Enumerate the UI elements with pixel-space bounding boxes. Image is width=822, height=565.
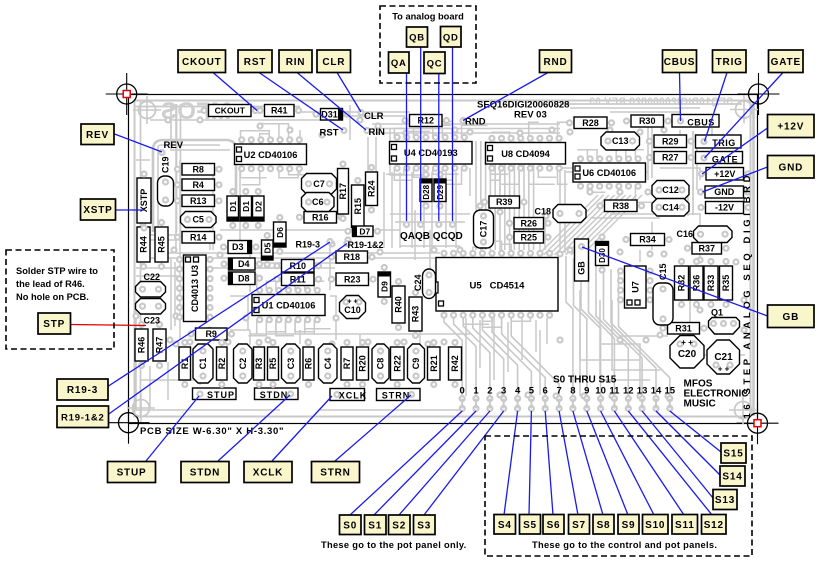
wire CLR callout: [337, 73, 361, 113]
wire: [571, 195, 631, 255]
IC U5 CD4514: [432, 251, 559, 318]
svg-text:R6: R6: [304, 358, 314, 370]
wire +12V callout: [702, 128, 768, 174]
IC U2 CD40106: [235, 137, 307, 171]
resistor R9: [189, 332, 194, 337]
wire: [544, 195, 604, 255]
wire: [136, 234, 180, 236]
svg-text:C13: C13: [612, 136, 629, 146]
label box S14: [720, 466, 745, 486]
resistor R28: [567, 120, 572, 125]
svg-text:R38: R38: [613, 201, 630, 211]
wire: [444, 316, 462, 399]
wire: [711, 128, 713, 135]
capacitor C9: [408, 344, 425, 383]
wire: [610, 214, 700, 260]
wire: [304, 320, 306, 334]
svg-text:R15: R15: [353, 198, 363, 215]
resistor R45: [159, 220, 164, 225]
svg-text:R4: R4: [192, 180, 204, 190]
svg-text:U2 CD40106: U2 CD40106: [244, 150, 298, 160]
svg-text:14: 14: [651, 386, 662, 397]
wire: [570, 107, 700, 109]
connector CBUS: [672, 115, 719, 128]
svg-text:C19: C19: [161, 156, 171, 173]
svg-text:+ +: + +: [718, 365, 730, 374]
svg-text:R42: R42: [450, 355, 460, 372]
wire: [372, 128, 560, 130]
svg-text:C21: C21: [714, 352, 733, 363]
svg-text:MUSIC: MUSIC: [684, 399, 716, 410]
resistor R35: [724, 259, 729, 264]
resistor R14: [175, 235, 180, 240]
svg-text:GND: GND: [778, 162, 803, 173]
wire: [230, 329, 250, 331]
wire: [375, 137, 377, 172]
svg-text:CLR: CLR: [322, 57, 345, 68]
wire: [577, 195, 637, 255]
svg-text:D9: D9: [379, 281, 389, 292]
diode D6: [277, 215, 282, 220]
svg-text:STRN: STRN: [320, 468, 350, 479]
wire stubs: [239, 121, 654, 335]
wire: [140, 379, 200, 381]
svg-text:CD4013 U3: CD4013 U3: [190, 265, 200, 312]
wire: [136, 159, 150, 161]
wire loop: [153, 140, 236, 232]
label box RST: [238, 50, 272, 73]
label box S11: [672, 515, 698, 535]
svg-text:RST: RST: [244, 57, 266, 68]
wire: [220, 229, 400, 231]
svg-text:R29: R29: [662, 136, 679, 146]
wire: [419, 330, 421, 344]
wire XCLK callout: [272, 396, 332, 461]
svg-text:R21: R21: [429, 355, 439, 372]
svg-text:D2: D2: [253, 201, 263, 212]
svg-text:No hole on PCB.: No hole on PCB.: [16, 292, 89, 302]
svg-text:C24: C24: [413, 274, 423, 291]
resistor R32: [679, 259, 684, 264]
wire: [518, 141, 520, 250]
label box S5: [520, 515, 541, 535]
svg-text:Solder STP wire to: Solder STP wire to: [16, 266, 98, 276]
connector XCLK: [330, 389, 367, 401]
svg-text:9: 9: [584, 386, 589, 397]
resistor R10: [275, 263, 280, 268]
wire: [149, 366, 151, 408]
wire S3 callout: [424, 411, 504, 515]
resistor R16: [297, 215, 302, 220]
svg-text:STUP: STUP: [207, 390, 235, 400]
svg-text:CKOUT: CKOUT: [182, 57, 222, 68]
svg-text:2: 2: [487, 386, 492, 397]
wire: [680, 196, 688, 216]
svg-text:Q1: Q1: [711, 308, 723, 318]
vias: [134, 118, 747, 399]
resistor R30: [624, 119, 629, 124]
svg-text:These go to the pot panel only: These go to the pot panel only.: [321, 540, 466, 550]
connector TRIG: [696, 135, 742, 148]
wire: [485, 141, 487, 250]
svg-text:U6 CD40106: U6 CD40106: [582, 168, 636, 178]
fiducial mark: [729, 396, 757, 424]
capacitor C22: [136, 282, 166, 298]
svg-text:R39: R39: [496, 197, 513, 207]
svg-text:C20: C20: [678, 349, 697, 360]
wire: [493, 318, 495, 380]
wire REV callout: [115, 134, 163, 152]
label box CBUS: [663, 50, 697, 73]
svg-text:R23: R23: [344, 274, 361, 284]
wire GATE callout: [705, 73, 784, 159]
svg-text:R34: R34: [639, 235, 656, 245]
svg-text:C18: C18: [535, 207, 552, 217]
svg-text:STDN: STDN: [260, 390, 289, 400]
svg-text:C8: C8: [376, 358, 386, 370]
svg-text:C2: C2: [238, 358, 248, 370]
svg-text:D1: D1: [228, 201, 238, 212]
wire S4 callout: [504, 411, 518, 515]
label box RIN: [279, 50, 312, 73]
wire: [507, 322, 509, 372]
svg-text:R30: R30: [639, 116, 656, 126]
dashed box Solder STP note: [6, 250, 114, 349]
svg-text:S7: S7: [572, 520, 586, 531]
svg-text:C3: C3: [286, 358, 296, 370]
svg-text:C10: C10: [344, 305, 361, 315]
wire: [175, 104, 177, 250]
capacitor C2: [234, 344, 253, 383]
dashed box control and pot panels: [485, 436, 752, 556]
svg-text:C17: C17: [479, 221, 489, 238]
wire CBUS callout: [680, 73, 681, 122]
wire: [359, 335, 361, 346]
svg-text:7: 7: [556, 386, 561, 397]
wire TRIG callout: [705, 73, 728, 142]
wire: [689, 300, 691, 340]
svg-text:15: 15: [665, 386, 676, 397]
wire: [136, 275, 180, 277]
wire: [424, 132, 426, 176]
wire: [566, 195, 626, 255]
svg-text:XSTP: XSTP: [139, 189, 149, 213]
wire: [499, 141, 501, 250]
svg-text:R31: R31: [675, 323, 692, 333]
wire S10 callout: [601, 411, 654, 515]
capacitor C17: [474, 210, 494, 248]
resistor R23: [329, 277, 334, 282]
wire: [383, 172, 385, 248]
capacitor C1: [193, 344, 213, 383]
svg-text:D5: D5: [262, 242, 272, 253]
svg-text:R35: R35: [721, 275, 731, 292]
svg-text:13: 13: [637, 386, 648, 397]
wire: [544, 210, 546, 250]
wire: [164, 240, 166, 258]
resistor R20: [360, 340, 365, 345]
svg-text:GATE: GATE: [771, 57, 801, 68]
wire: [150, 257, 470, 259]
fiducial mark: [127, 394, 155, 422]
diode D4: [222, 262, 227, 267]
svg-text:C5: C5: [192, 215, 204, 225]
wire STRN callout: [335, 395, 411, 461]
svg-text:S0 THRU S15: S0 THRU S15: [553, 375, 617, 386]
wire copper border ring: [135, 101, 751, 417]
svg-text:R28: R28: [582, 118, 599, 128]
wire: [692, 131, 694, 215]
svg-text:C9: C9: [411, 358, 421, 370]
capacitor C3: [282, 344, 301, 383]
wire: [170, 258, 172, 330]
svg-text:CLR: CLR: [364, 111, 384, 122]
diode D8: [222, 276, 227, 281]
resistor R21: [431, 340, 436, 345]
IC U3 CD4013: [177, 255, 213, 322]
wire: [559, 170, 561, 250]
svg-text:D8: D8: [238, 273, 250, 283]
svg-text:R19-3: R19-3: [67, 385, 98, 396]
svg-text:RST: RST: [320, 128, 339, 139]
connector GB: [575, 239, 589, 281]
mounting hole target: [737, 402, 779, 444]
svg-text:To analog board: To analog board: [392, 12, 464, 22]
svg-text:D1: D1: [241, 201, 251, 212]
svg-text:R27: R27: [662, 153, 679, 163]
resistor R26: [507, 221, 512, 226]
resistor R43: [413, 290, 418, 295]
wire: [581, 260, 601, 398]
svg-text:R3: R3: [254, 358, 264, 370]
resistor R1: [182, 340, 187, 345]
wire: [414, 210, 416, 260]
svg-text:D31: D31: [321, 110, 338, 120]
label box S13: [713, 490, 737, 510]
label box S9: [618, 515, 639, 535]
wire: [255, 267, 335, 269]
svg-text:RIN: RIN: [286, 57, 306, 68]
wire: [199, 345, 201, 385]
svg-text:C23: C23: [144, 316, 161, 326]
wire: [528, 141, 530, 250]
wire: [174, 262, 176, 326]
svg-text:S13: S13: [715, 495, 735, 506]
label box S1: [365, 515, 387, 535]
wire: [399, 172, 401, 248]
resistor R39: [482, 200, 487, 205]
svg-text:D3: D3: [232, 242, 244, 252]
svg-text:S8: S8: [597, 520, 611, 531]
label box QC: [424, 52, 445, 74]
wire: [619, 271, 670, 398]
label box S10: [643, 515, 669, 535]
mounting hole target: [108, 402, 150, 444]
svg-text:R16: R16: [312, 212, 329, 222]
label box +12V: [768, 115, 815, 138]
wire: [212, 175, 214, 250]
svg-text:U4 CD40193: U4 CD40193: [404, 148, 458, 158]
svg-text:D29: D29: [436, 184, 445, 199]
wire: [651, 122, 653, 178]
svg-text:R26: R26: [521, 218, 538, 228]
connector STRN: [377, 389, 421, 401]
wire: [135, 106, 300, 108]
svg-text:U1 CD40106: U1 CD40106: [262, 301, 316, 311]
label box STP: [38, 313, 71, 334]
IC U1 CD40106: [252, 288, 325, 322]
diode D30: [600, 235, 605, 240]
connector STDN: [255, 388, 299, 400]
svg-text:R33: R33: [706, 275, 716, 292]
svg-text:U5 CD4514: U5 CD4514: [470, 281, 526, 292]
wire: [140, 239, 176, 241]
wire: [651, 222, 653, 250]
svg-text:the lead of R46.: the lead of R46.: [16, 279, 85, 289]
diode D29: [438, 172, 443, 177]
resistor R25: [507, 235, 512, 240]
capacitor C12: [652, 181, 689, 200]
wire: [611, 269, 656, 398]
label box XSTP: [81, 199, 116, 220]
svg-text:XCLK: XCLK: [339, 390, 368, 400]
svg-text:STP: STP: [43, 319, 65, 330]
wire: [566, 256, 573, 399]
wire: [480, 141, 482, 250]
wire: [367, 137, 369, 200]
svg-text:R14: R14: [190, 232, 207, 242]
svg-text:XSTP: XSTP: [83, 205, 112, 216]
component CKOUT: [202, 108, 207, 113]
svg-text:S6: S6: [547, 520, 561, 531]
svg-text:R20: R20: [358, 355, 368, 372]
wire: [596, 265, 628, 399]
wire copper rail right: [752, 101, 755, 416]
capacitor C15: [653, 283, 673, 325]
svg-text:R25: R25: [521, 232, 538, 242]
wire: [600, 300, 650, 380]
wire: [610, 111, 680, 113]
svg-text:0: 0: [460, 386, 465, 397]
svg-text:GB: GB: [782, 312, 799, 323]
svg-text:RIN: RIN: [369, 127, 386, 138]
svg-text:REV 03: REV 03: [514, 110, 547, 121]
wire: [555, 195, 615, 255]
svg-text:12: 12: [623, 386, 634, 397]
IC U7: [618, 266, 653, 308]
resistor R5: [271, 340, 276, 345]
diode D31: [314, 112, 319, 117]
component +12V: [699, 171, 704, 176]
svg-text:+ +: + +: [681, 338, 693, 347]
svg-text:16 STEP ANALOG SEQ DIGI BRD: 16 STEP ANALOG SEQ DIGI BRD: [742, 172, 753, 419]
svg-text:S15: S15: [723, 449, 743, 460]
svg-text:11: 11: [609, 386, 620, 397]
svg-text:U8 CD4094: U8 CD4094: [501, 149, 550, 159]
wire: [252, 262, 340, 264]
wire QB callout: [420, 47, 422, 224]
wire: [513, 141, 515, 250]
svg-text:R22: R22: [392, 355, 402, 372]
label box R19-3: [57, 379, 108, 400]
wire: [660, 168, 700, 180]
wire: [349, 105, 351, 140]
resistor R47: [157, 322, 162, 327]
wire: [479, 320, 481, 368]
svg-text:GND: GND: [714, 187, 735, 197]
resistor R22: [395, 340, 400, 345]
wire S13 callout: [642, 411, 713, 498]
component -12V: [699, 205, 704, 210]
svg-text:R37: R37: [699, 243, 716, 253]
svg-text:SEQ16DIGI20060828 REV 03: SEQ16DIGI20060828 REV 03: [589, 97, 733, 108]
resistor R4: [175, 182, 180, 187]
wire: [285, 320, 287, 334]
wire: [299, 130, 301, 175]
resistor R15: [355, 178, 360, 183]
wire: [546, 318, 548, 344]
wire: [391, 172, 393, 248]
svg-text:RND: RND: [543, 57, 567, 68]
wire R19-3 callout: [109, 242, 331, 386]
svg-text:CKOUT: CKOUT: [215, 106, 246, 116]
resistor R31: [661, 326, 666, 331]
capacitor C8: [372, 344, 389, 383]
wire: [372, 132, 560, 134]
wire: [429, 230, 431, 290]
label box S15: [721, 443, 746, 463]
capacitor C23: [136, 299, 166, 315]
component GND: [698, 190, 703, 195]
label box S0: [340, 515, 362, 535]
capacitor C18: [553, 205, 586, 223]
wire: [612, 300, 660, 370]
wire GB callout: [582, 247, 768, 316]
PCB outline: [129, 95, 758, 424]
svg-text:GATE: GATE: [712, 154, 738, 164]
svg-text:R19-1&2: R19-1&2: [61, 412, 105, 423]
wire QC callout: [438, 74, 440, 225]
transistor Q1: [709, 308, 740, 335]
wire: [560, 195, 620, 255]
wire S6 callout: [545, 411, 553, 515]
svg-text:S12: S12: [704, 520, 724, 531]
svg-text:R19-3: R19-3: [296, 240, 321, 250]
label box RND: [540, 50, 572, 73]
svg-text:C14: C14: [662, 202, 679, 212]
label box XCLK: [244, 462, 292, 483]
svg-text:R8: R8: [192, 164, 204, 174]
svg-text:QAQB QCQD: QAQB QCQD: [400, 231, 463, 242]
label box CKOUT: [178, 50, 226, 73]
wire S15 callout: [670, 411, 721, 452]
wire: [564, 170, 566, 253]
connector STUP: [193, 388, 237, 400]
svg-text:R40: R40: [394, 296, 404, 313]
svg-text:C16: C16: [677, 229, 694, 239]
svg-text:REV: REV: [86, 130, 109, 141]
wire: [465, 318, 467, 396]
svg-text:R44: R44: [139, 236, 149, 253]
resistor R24: [369, 165, 374, 170]
wire: [431, 172, 433, 248]
wire: [249, 330, 251, 345]
diode D2: [256, 189, 261, 194]
wire RIN callout: [297, 73, 366, 131]
resistor R7: [345, 340, 350, 345]
wire: [538, 195, 598, 255]
wire: [499, 168, 501, 192]
